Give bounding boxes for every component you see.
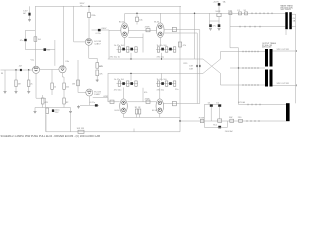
svg-text:SW: SW [229, 117, 232, 119]
svg-text:1R 1R: 1R 1R [135, 107, 141, 109]
svg-text:40W Z=4k3: 40W Z=4k3 [262, 47, 271, 49]
svg-text:0.22u: 0.22u [90, 102, 96, 104]
svg-text:1k 47n 1k5: 1k 47n 1k5 [114, 79, 125, 81]
svg-text:EL34: EL34 [115, 110, 121, 112]
svg-text:FUSE: FUSE [199, 117, 205, 119]
svg-text:EL34: EL34 [152, 110, 158, 112]
svg-text:EL34: EL34 [154, 21, 160, 23]
svg-text:SEC 2x320V: SEC 2x320V [281, 9, 292, 11]
svg-text:25V: 25V [55, 112, 59, 114]
svg-text:1M: 1M [72, 84, 75, 86]
svg-text:EL34: EL34 [119, 21, 125, 23]
svg-text:1M: 1M [18, 84, 21, 86]
svg-text:1k 47n 1k5: 1k 47n 1k5 [157, 79, 168, 81]
svg-text:10R: 10R [189, 69, 193, 71]
svg-text:AC: AC [23, 12, 26, 15]
svg-text:630V: 630V [102, 28, 107, 30]
svg-text:SPK OUT 8R: SPK OUT 8R [277, 83, 290, 85]
svg-text:470 10u: 470 10u [157, 89, 165, 91]
svg-text:100R: 100R [215, 11, 220, 13]
svg-text:240V AC: 240V AC [225, 130, 234, 133]
svg-text:1k 47n 1k5: 1k 47n 1k5 [114, 45, 125, 47]
svg-text:1k 47n 1k5: 1k 47n 1k5 [157, 45, 168, 47]
svg-text:470R: 470R [145, 27, 150, 29]
svg-text:470R: 470R [145, 98, 150, 100]
svg-text:6V3 4A: 6V3 4A [238, 101, 245, 104]
svg-text:470R: 470R [103, 96, 108, 98]
svg-text:10R: 10R [189, 66, 193, 68]
svg-text:0.22u: 0.22u [96, 33, 102, 35]
svg-text:SPK OUT 8R: SPK OUT 8R [277, 49, 290, 51]
svg-text:470 10u 1k: 470 10u 1k [110, 56, 121, 58]
svg-text:12AX7: 12AX7 [94, 93, 101, 96]
svg-text:470 10u: 470 10u [157, 56, 165, 58]
svg-text:10R 5W: 10R 5W [77, 128, 85, 130]
svg-text:12AX7: 12AX7 [94, 43, 101, 46]
svg-text:SCHEMA 2.1 AMPLI 35W PUSH PULL: SCHEMA 2.1 AMPLI 35W PUSH PULL EL34 - DR… [1, 134, 101, 138]
svg-text:470 10u: 470 10u [114, 89, 122, 91]
